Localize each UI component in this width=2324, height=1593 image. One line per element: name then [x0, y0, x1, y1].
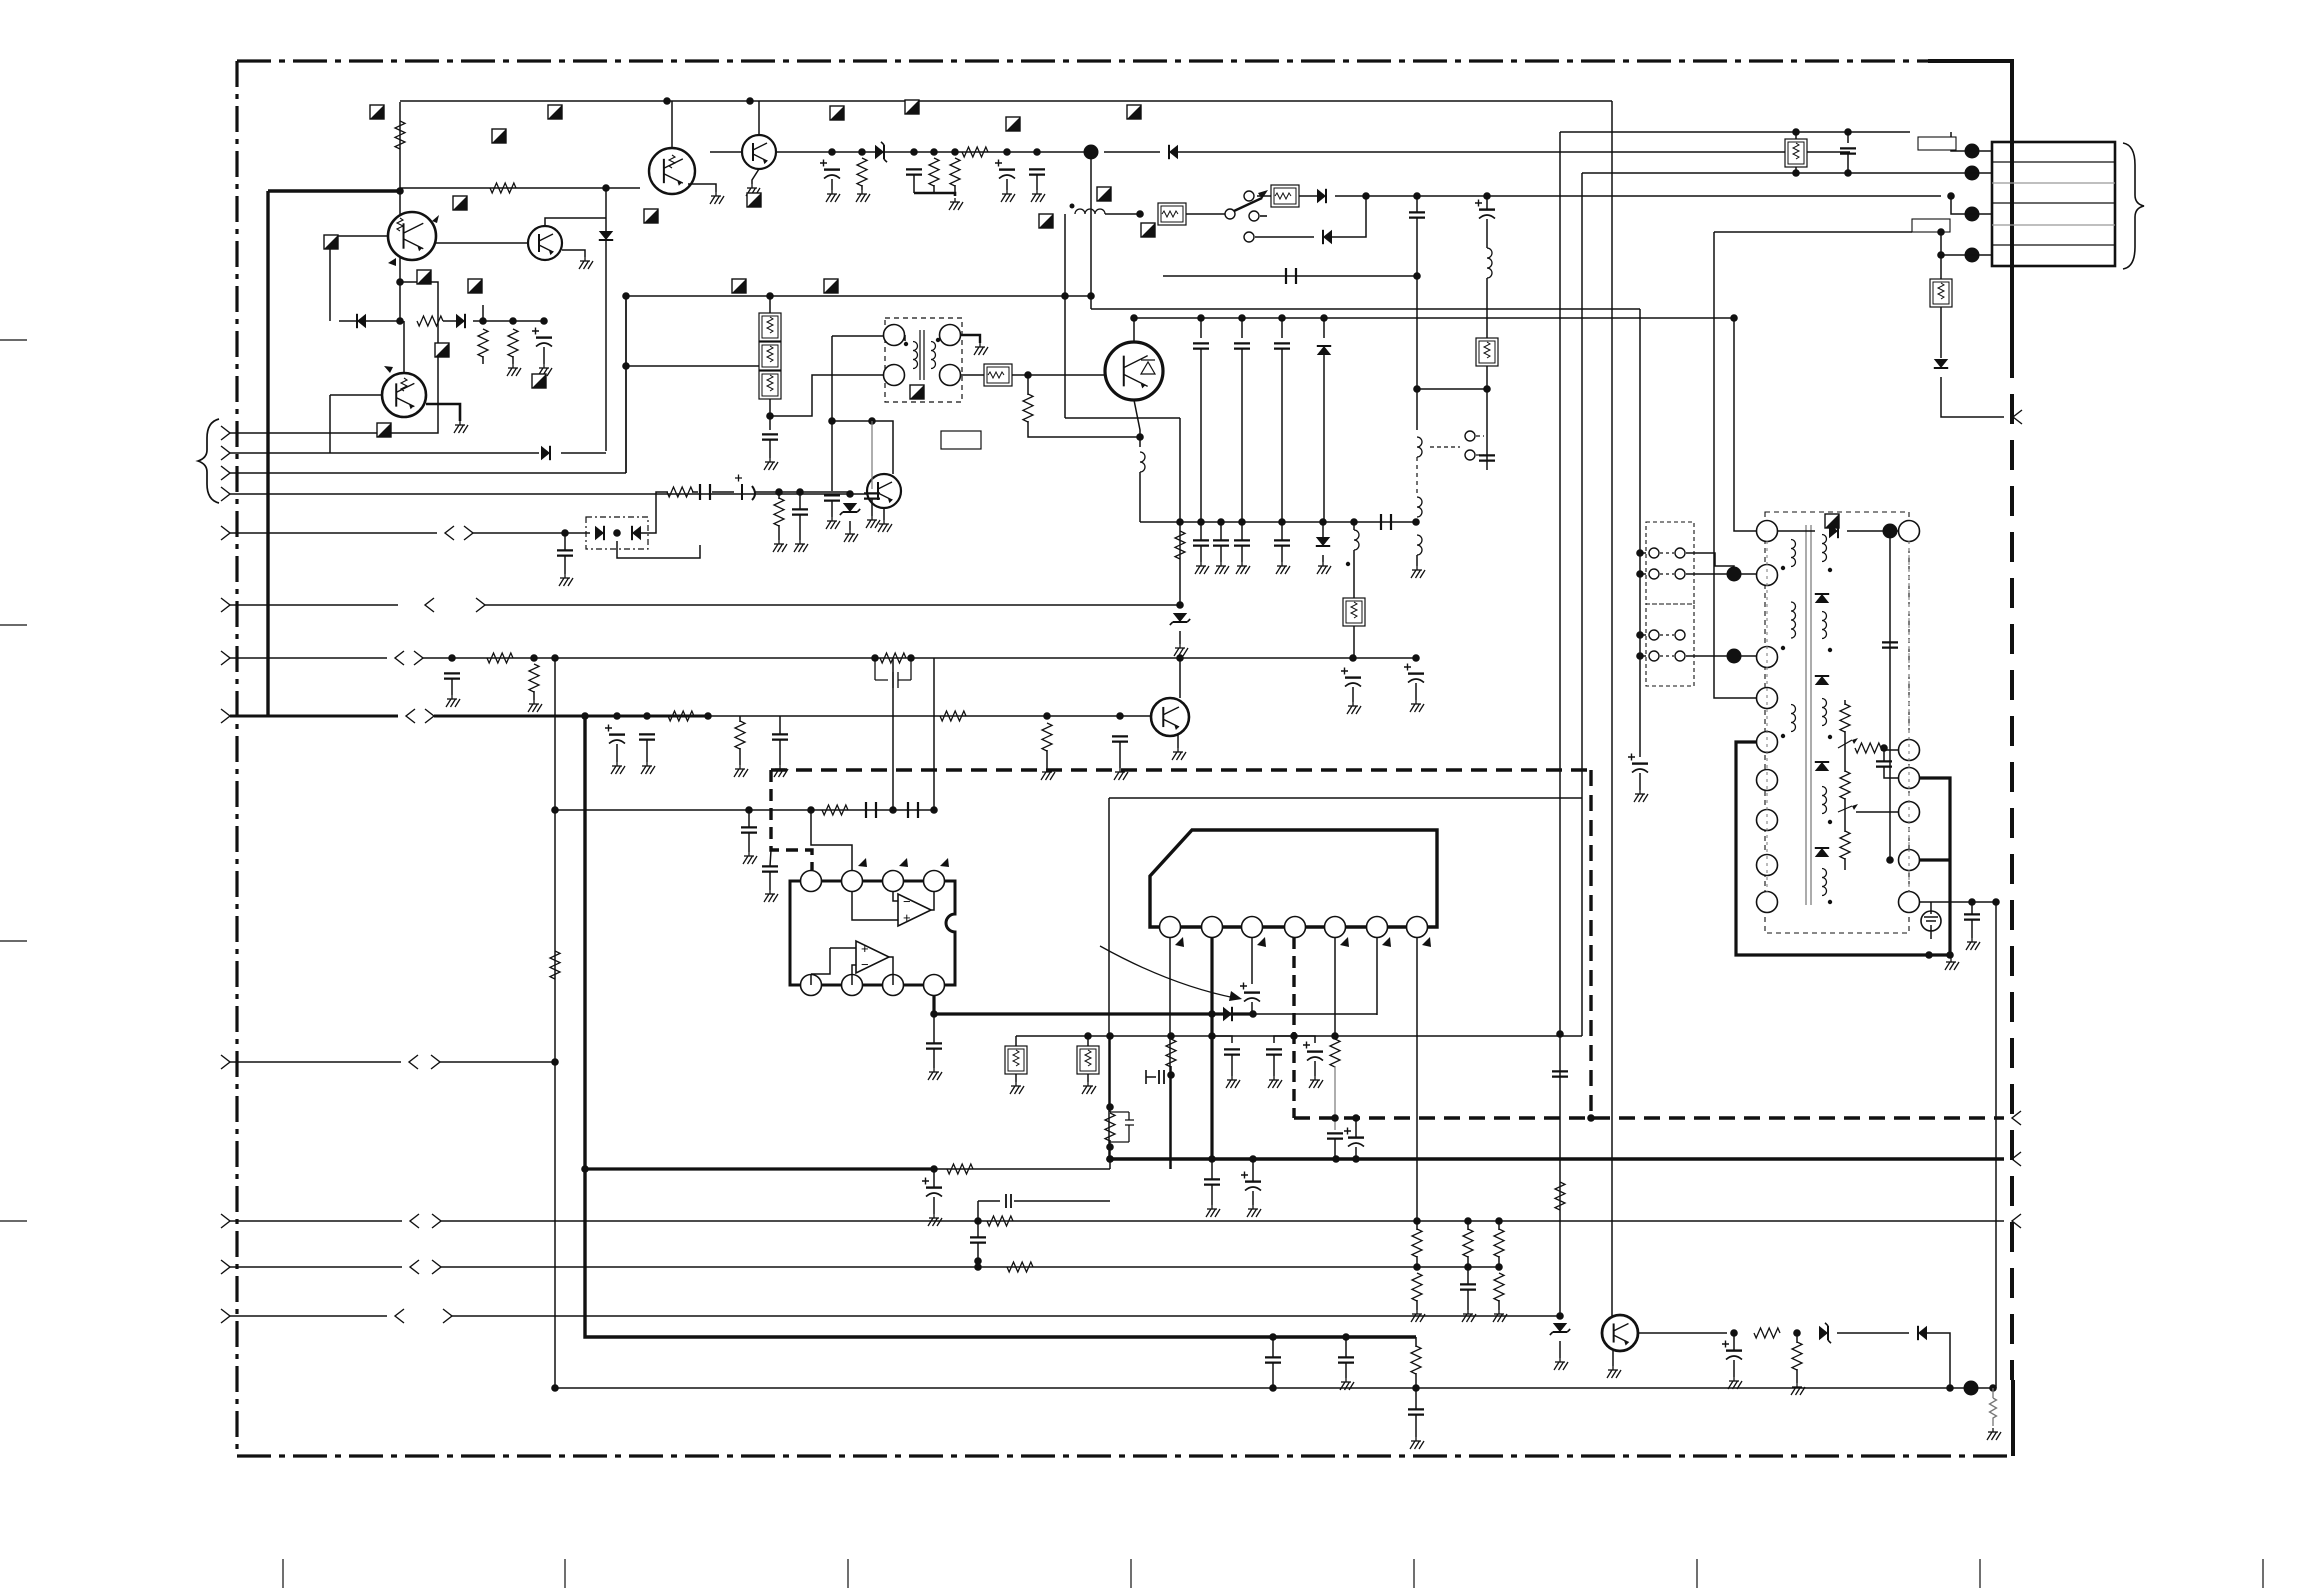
junction: [1197, 314, 1205, 322]
junction: [663, 97, 671, 105]
junction: [745, 806, 753, 814]
connector arrow in at y=1316: [221, 1309, 230, 1323]
ground: [1281, 562, 1283, 566]
ground: [1046, 768, 1048, 772]
junction: [1278, 314, 1286, 322]
resistor R610: [1023, 394, 1033, 422]
capacitor C651: [970, 1237, 986, 1242]
wire y=810: [555, 809, 934, 811]
capacitor C641: [1224, 1049, 1240, 1054]
transistor Q602: [528, 226, 562, 260]
junction: [1413, 1217, 1421, 1225]
resistor R621: [1840, 831, 1850, 859]
electrolytic capacitor C649: [926, 1186, 942, 1188]
resistor R640: [774, 498, 784, 526]
IC601 top pin x=934: [924, 871, 945, 892]
left margin tick: [0, 940, 27, 942]
wire: [1795, 167, 1797, 173]
ground: [748, 852, 750, 856]
bottom margin tick: [2262, 1559, 2264, 1588]
ground: [861, 190, 863, 194]
diode D603: [456, 314, 465, 328]
junction: [1319, 518, 1327, 526]
wire y=1316 left: [230, 1315, 387, 1317]
IC602 pin1 wire: [1169, 938, 1171, 1169]
capacitor C625: [639, 734, 655, 739]
ground: [1733, 1377, 1735, 1381]
ground: [769, 890, 771, 894]
IC602 pin2 thick wire: [1210, 938, 1213, 1159]
wire: [1036, 175, 1038, 190]
wire: [692, 491, 698, 493]
connector arrow in at y=453: [221, 446, 230, 460]
junction: [1087, 292, 1095, 300]
wire: [778, 525, 780, 540]
switch lever: [1234, 198, 1262, 211]
wire: [1498, 1221, 1500, 1230]
long wire x=1560: [1559, 132, 1561, 1316]
junction: [1061, 292, 1069, 300]
wire y=389: [1417, 388, 1487, 390]
inductor L601: [1075, 209, 1105, 214]
wire: [1255, 236, 1314, 238]
diode D608: [1317, 189, 1326, 203]
wire y=276: [1163, 275, 1417, 277]
junction: [1197, 518, 1205, 526]
ground: [1177, 748, 1179, 752]
junction: [1886, 856, 1894, 864]
resistor R641: [1175, 531, 1185, 559]
junction: [396, 187, 404, 195]
capacitor C628: [1840, 148, 1856, 153]
frame dash-dot bottom border: [237, 1454, 2013, 1457]
wire: [1332, 196, 1366, 237]
connector CN601 row line: [1992, 161, 2115, 163]
resistor R624: [1166, 1039, 1176, 1067]
wire y=533: [473, 532, 590, 534]
wire: [1314, 1061, 1316, 1076]
resistor R601: [395, 121, 405, 149]
junction: [1792, 169, 1800, 177]
wire: [769, 296, 771, 313]
wire y=1267 left: [230, 1266, 402, 1268]
resistor R611: [487, 653, 513, 663]
wire: [1498, 1300, 1500, 1310]
wire: [1211, 1159, 1213, 1179]
electrolytic capacitor C638: [1244, 991, 1260, 993]
frame dash-dot left border: [235, 61, 238, 1456]
long wire y=152: [1178, 151, 1850, 153]
wire: [1416, 1221, 1418, 1230]
ground: [564, 574, 566, 578]
wire: [769, 341, 771, 342]
wire: [977, 1243, 979, 1261]
ground: [871, 516, 873, 520]
junction: [1106, 1143, 1114, 1151]
wire: [1844, 731, 1846, 772]
wire: [933, 1197, 935, 1214]
junction: [1349, 654, 1357, 662]
zener diode D621: [1819, 1326, 1828, 1340]
wire x=400 down: [399, 160, 401, 321]
thick bus wire y=716 left: [230, 715, 398, 718]
resistor R627: [947, 1164, 973, 1174]
wire: [1200, 349, 1202, 522]
inline arrow: [410, 1260, 419, 1274]
bold dashed boundary left leg: [771, 770, 812, 870]
junction: [1136, 433, 1144, 441]
IC602 pin6 wire: [1376, 938, 1378, 1015]
electrolytic capacitor C604: [999, 168, 1015, 170]
pin arrow: [1257, 937, 1266, 947]
junction: [1412, 654, 1420, 662]
wire y=196: [1335, 195, 1941, 197]
wire: [778, 492, 780, 499]
T602 primary pin y=698: [1757, 688, 1778, 709]
ground: [849, 530, 851, 534]
ground: [451, 695, 453, 699]
wire: [1940, 232, 1942, 255]
T602 pin ladder dashes: [1767, 541, 1909, 892]
diode D624: [632, 526, 641, 540]
page reference flag: [824, 279, 838, 293]
junction: [1208, 1155, 1216, 1163]
Q607 collector wire: [1133, 318, 1135, 342]
T602 winding W2: [1791, 602, 1796, 638]
wire: [1640, 573, 1646, 575]
page reference flag: [548, 105, 562, 119]
bold dashed boundary bottom: [1294, 1116, 2004, 1119]
wire: [1416, 555, 1418, 566]
transistor Q608: [1151, 698, 1189, 736]
ground: [1352, 702, 1354, 706]
T602 winding dots: [1781, 566, 1785, 570]
T602 winding W7: [1822, 787, 1827, 814]
T602 primary pin y=657: [1757, 647, 1778, 668]
inline arrow: [445, 526, 454, 540]
wire: [1241, 318, 1243, 338]
junction: [1989, 1384, 1997, 1392]
page reference flag: [1825, 514, 1839, 528]
Q602 emitter wire: [562, 250, 585, 257]
T602 secondary pin y=750: [1899, 740, 1920, 761]
wire x=1714: [1713, 232, 1715, 687]
junction: [1106, 1155, 1114, 1163]
page reference flag: [910, 385, 924, 399]
wire: [892, 974, 894, 985]
power transistor Q607: [1105, 342, 1163, 400]
wire: [564, 556, 566, 574]
ground: [779, 765, 781, 769]
junction: [1792, 128, 1800, 136]
wire y=309: [1091, 308, 1640, 310]
wire: [811, 948, 830, 974]
junction: [1362, 192, 1370, 200]
resistor R634: [1494, 1273, 1504, 1301]
selector contact: [1649, 630, 1659, 640]
page reference flag: [1127, 105, 1141, 119]
wire: [1733, 1333, 1735, 1350]
electrolytic capacitor C660: [742, 484, 755, 500]
wire: [1087, 1074, 1089, 1082]
Q601 internal resistor: [397, 218, 403, 231]
page reference flag: [377, 423, 391, 437]
diode D609: [1323, 230, 1332, 244]
junction: [1556, 1312, 1564, 1320]
wire: [1741, 573, 1756, 575]
ground: [543, 364, 545, 368]
wire: [1272, 1337, 1274, 1357]
wire: [1844, 858, 1846, 870]
rectifier diode D614: [1815, 594, 1829, 603]
selector contact: [1649, 569, 1659, 579]
IC601 top pin x=852: [842, 871, 863, 892]
wire: [399, 102, 401, 160]
thick bus wire y=716: [434, 715, 710, 718]
resistor R632: [1494, 1229, 1504, 1257]
capacitor C634: [762, 866, 778, 871]
wire x=1640 to selector: [1639, 309, 1641, 757]
page reference flag: [905, 100, 919, 114]
junction: [1033, 148, 1041, 156]
wire: [1837, 1332, 1909, 1334]
wire: [1847, 530, 1898, 532]
left margin tick: [0, 624, 27, 626]
wire: [769, 399, 771, 430]
resistor R612: [529, 664, 539, 692]
wire: [646, 740, 648, 762]
wire: [1467, 1290, 1469, 1310]
wire: [339, 320, 400, 322]
junction: [1130, 314, 1138, 322]
pin arrow: [858, 858, 867, 867]
bottom margin tick: [282, 1559, 284, 1588]
ground: [1036, 190, 1038, 194]
ground: [1220, 562, 1222, 566]
junction: [1176, 654, 1184, 662]
wire: [1415, 1337, 1417, 1347]
diode D602: [357, 314, 366, 328]
wire: [1087, 1036, 1089, 1046]
wire y=1036: [1016, 1035, 1582, 1037]
junction: [1636, 549, 1644, 557]
capacitor C626: [772, 734, 788, 739]
junction: [1730, 314, 1738, 322]
T602 core: [1806, 525, 1811, 905]
T602 winding W5: [1822, 612, 1827, 639]
junction: [974, 1263, 982, 1271]
capacitor C637: [908, 802, 918, 818]
electrolytic capacitor C622: [1345, 676, 1361, 678]
resistor R607: [929, 158, 939, 186]
T601 pin 4: [940, 325, 961, 346]
connector pin terminal: [1965, 248, 1980, 263]
connector CN601 row line: [1992, 202, 2115, 204]
wire: [961, 335, 980, 343]
pin lead: [1960, 150, 1992, 152]
wire y=1316 right: [452, 1315, 1560, 1317]
wire: [1920, 901, 1996, 903]
wire: [1179, 631, 1181, 644]
capacitor C631: [1876, 761, 1892, 766]
junction: [396, 278, 404, 286]
ground: [1992, 1428, 1994, 1432]
wire: [977, 1221, 979, 1237]
wire y=232: [1714, 231, 1912, 233]
ground: [533, 700, 535, 704]
transistor Q603: [382, 373, 426, 417]
wire: [1844, 798, 1846, 832]
Q606 emitter wire: [752, 169, 759, 184]
wire: [1733, 1360, 1735, 1377]
wire x=1417: [1416, 218, 1418, 430]
IC602 body: [1150, 830, 1437, 927]
junction: [910, 148, 918, 156]
capacitor C635: [741, 827, 757, 832]
junction: [551, 1384, 559, 1392]
wire: [1015, 1074, 1017, 1082]
transformer T601 shield box: [885, 318, 962, 402]
wire Q603 base: [330, 394, 382, 396]
wire: [1241, 349, 1243, 522]
T601 secondary winding: [931, 342, 936, 369]
T602 winding dots 2: [1828, 568, 1832, 572]
junction: [1483, 192, 1491, 200]
coil link dashes: [1416, 457, 1418, 497]
fusible resistor FR602: [1271, 185, 1299, 207]
junction: [613, 712, 621, 720]
wire: [1353, 550, 1355, 598]
wire: [1012, 374, 1105, 376]
junction: [871, 654, 879, 662]
transistor Q606: [742, 135, 776, 169]
wire x=606: [605, 188, 607, 451]
wire y=418: [1065, 417, 1180, 419]
resistor R604: [478, 329, 488, 357]
junction: [1136, 210, 1144, 218]
junction: [1176, 601, 1184, 609]
junction: [1331, 1114, 1339, 1122]
connector pin terminal: [1965, 166, 1980, 181]
electrolytic capacitor C607: [1479, 208, 1495, 210]
transistor Q604: [867, 474, 901, 508]
diode D604: [541, 446, 550, 460]
junction: [1925, 951, 1933, 959]
wire: [1006, 179, 1008, 190]
switch contact: [1225, 209, 1235, 219]
selector contact: [1649, 651, 1659, 661]
ground: [1796, 1383, 1798, 1387]
Q609 emitter wire: [1612, 1351, 1614, 1366]
thick vertical bus x=268: [266, 191, 269, 716]
wire: [748, 833, 750, 852]
wire: [887, 957, 893, 974]
Q603 lead arrow: [384, 366, 393, 373]
inductor L605: [1417, 535, 1422, 555]
pot arrow: [1838, 740, 1852, 748]
junction: [1084, 1032, 1092, 1040]
frame right heavy line dashed part: [2010, 348, 2014, 1380]
resistor R628: [987, 1216, 1013, 1226]
rectifier diode D616: [1815, 762, 1829, 771]
wire: [533, 691, 535, 700]
junction: [1350, 518, 1358, 526]
capacitor C659: [700, 484, 710, 500]
wire into connector pin 1: [1951, 132, 1960, 151]
junction: [1106, 1103, 1114, 1111]
IC602 pin x=1335: [1325, 917, 1346, 938]
page reference flag: [532, 374, 546, 388]
capacitor C642: [1266, 1049, 1282, 1054]
junction: [551, 654, 559, 662]
ground: [1639, 790, 1641, 794]
connector arrow in at y=1267: [221, 1260, 230, 1274]
wire x=1582: [1581, 173, 1583, 1036]
wire: [1220, 522, 1222, 540]
thick bus y=1169: [585, 1167, 934, 1170]
junction: [1331, 1032, 1339, 1040]
wire: [1220, 546, 1222, 562]
junction: [807, 806, 815, 814]
ground: [1273, 1076, 1275, 1080]
wire y=1221 right: [441, 1220, 2004, 1222]
resistor R633: [1412, 1273, 1422, 1301]
wire: [978, 1200, 1000, 1202]
electrolytic capacitor C623: [1408, 672, 1424, 674]
wire: [616, 744, 618, 762]
svg-text:+: +: [903, 910, 911, 925]
Q605 emitter wire: [688, 184, 716, 192]
electrolytic capacitor C654: [1726, 1349, 1742, 1351]
capacitor C611: [824, 495, 840, 500]
junction: [1636, 570, 1644, 578]
wire x=1110: [1109, 1036, 1111, 1112]
T601 pin 3: [940, 365, 961, 386]
wire x=626: [625, 296, 627, 473]
wire: [473, 320, 544, 322]
wire to Q608: [1179, 658, 1181, 698]
wire: [1105, 213, 1140, 215]
wire: [1486, 196, 1488, 209]
junction: [766, 292, 774, 300]
bottom margin tick: [564, 1559, 566, 1588]
wire: [1883, 748, 1885, 761]
junction: [540, 317, 548, 325]
rectifier diode D617: [1815, 848, 1829, 857]
inline arrow: [406, 709, 415, 723]
IC602 pin7 wire: [1416, 938, 1418, 1221]
ground: [933, 1214, 935, 1218]
junction: [951, 148, 959, 156]
resistor R609: [962, 147, 988, 157]
IC601 bottom pin x=893: [883, 975, 904, 996]
junction: [907, 654, 915, 662]
T602 winding W3: [1791, 705, 1796, 732]
ground: [1415, 700, 1417, 704]
wire: [1281, 349, 1283, 522]
junction: [796, 488, 804, 496]
op-amp U1a: [898, 894, 931, 926]
thin enclosure box left: [1108, 798, 1110, 1160]
op-amp U1b: [856, 941, 889, 973]
capacitor C616: [1213, 540, 1229, 545]
junction: [1208, 1032, 1216, 1040]
IC602 pin x=1252: [1242, 917, 1263, 938]
page reference flag: [370, 105, 384, 119]
wire: [851, 974, 853, 985]
page reference flag: [747, 193, 761, 207]
empty label box: [941, 431, 981, 449]
